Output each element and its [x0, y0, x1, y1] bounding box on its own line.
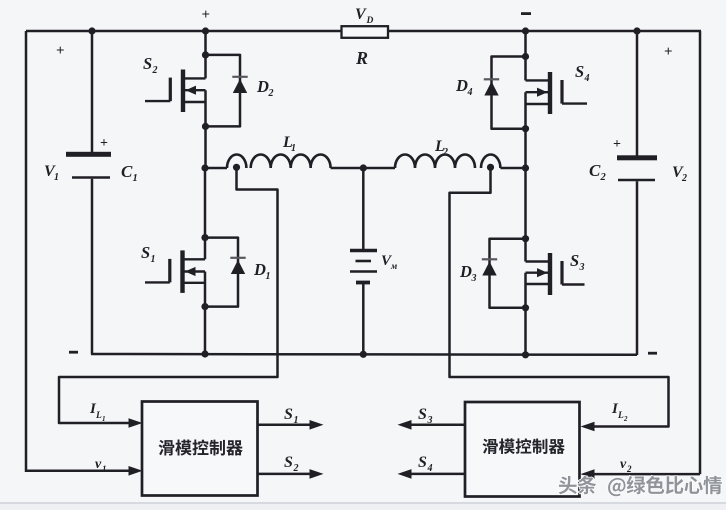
svg-text:D: D	[459, 262, 472, 281]
diode D2	[232, 76, 247, 78]
wire S2 output	[258, 473, 311, 476]
svg-text:2: 2	[681, 173, 687, 184]
wire S4 output	[411, 473, 466, 476]
svg-text:S: S	[284, 454, 293, 471]
svg-text:L: L	[95, 411, 102, 421]
arrow v1 into controller	[129, 466, 143, 476]
controller U2 box	[465, 402, 580, 497]
svg-text:S: S	[143, 54, 152, 73]
wire D4 branch	[492, 57, 526, 129]
svg-text:1: 1	[151, 254, 156, 265]
node S3 top	[522, 235, 529, 242]
svg-text:D: D	[366, 16, 374, 26]
transistor S3	[548, 253, 552, 295]
transistor S4	[548, 72, 552, 114]
wire S4 source vertical	[524, 92, 527, 168]
svg-text:2: 2	[268, 88, 274, 99]
node S4 rail	[522, 27, 529, 34]
inductor L1	[227, 155, 331, 169]
node S3S4 junction	[522, 164, 529, 171]
diode D3	[482, 258, 497, 260]
svg-text:4: 4	[427, 463, 433, 474]
svg-text:V: V	[355, 6, 367, 23]
wire S3 drain vertical	[524, 168, 527, 262]
svg-text:1: 1	[133, 173, 138, 184]
wire L2 lead right	[500, 167, 525, 170]
svg-text:2: 2	[600, 172, 607, 183]
svg-text:+: +	[100, 136, 108, 151]
svg-text:S: S	[418, 406, 427, 423]
svg-text:S: S	[284, 406, 293, 423]
wire S3 output	[411, 424, 466, 427]
wire battery bottom	[362, 284, 365, 354]
label - top rail	[521, 12, 531, 15]
node S1 bottom	[201, 303, 208, 310]
svg-text:S: S	[575, 62, 584, 81]
battery Vbat	[350, 249, 377, 252]
svg-text:1: 1	[294, 415, 299, 426]
svg-text:2: 2	[442, 147, 448, 158]
svg-text:L: L	[617, 411, 624, 421]
node S3 rail	[522, 351, 529, 358]
diode D4	[484, 78, 499, 80]
wire S1 source vertical	[204, 272, 207, 355]
wire C2 top	[636, 31, 639, 156]
node S3 bottom	[522, 304, 529, 311]
wire IL2 sense	[450, 167, 669, 426]
label - bottom left	[69, 351, 78, 354]
wire bottom rail	[91, 353, 637, 356]
wire D3 branch	[490, 239, 526, 308]
svg-text:+: +	[202, 7, 211, 23]
svg-text:v: v	[620, 457, 627, 472]
node C2 rail	[633, 27, 640, 34]
controller U2 text	[483, 439, 498, 454]
svg-text:2: 2	[293, 463, 299, 474]
wire D2 branch	[206, 55, 241, 127]
svg-text:S: S	[141, 243, 150, 262]
node S4 bottom	[522, 125, 529, 132]
svg-text:D: D	[455, 76, 468, 95]
arrow S4 output	[398, 469, 412, 479]
svg-text:1: 1	[266, 271, 271, 282]
svg-text:1: 1	[54, 172, 59, 183]
wire C2 bottom	[636, 181, 639, 355]
wire battery top	[362, 168, 365, 249]
svg-text:3: 3	[579, 262, 585, 273]
wire top rail right segment	[388, 30, 701, 33]
wire C1 bottom	[91, 179, 94, 354]
svg-text:м: м	[390, 261, 397, 271]
wire left outer vertical	[25, 31, 28, 472]
transistor S1	[180, 250, 184, 293]
arrow IL1 into controller	[129, 418, 143, 428]
wire S4 drain vertical	[524, 31, 527, 80]
wire L1 lead right	[331, 167, 364, 170]
arrow IL2 into controller	[581, 422, 595, 432]
wire IL1 sense	[59, 167, 278, 423]
node C1 rail	[88, 27, 95, 34]
node S1 top	[201, 234, 208, 241]
svg-text:2: 2	[623, 415, 628, 423]
wire S1 output	[258, 424, 311, 427]
svg-text:R: R	[355, 48, 368, 68]
arrow S1 output	[310, 420, 324, 430]
svg-text:+: +	[613, 137, 621, 152]
wire S3 source vertical	[524, 273, 527, 355]
wire v2 horizontal	[594, 473, 700, 476]
controller U1 box	[142, 402, 258, 496]
svg-text:+: +	[664, 44, 673, 60]
arrow S3 output	[398, 420, 412, 430]
wire D1 branch	[205, 238, 238, 307]
svg-text:4: 4	[467, 87, 473, 98]
node L2 tap	[487, 164, 494, 171]
wire C1 top	[91, 31, 94, 152]
wire S1 drain vertical	[204, 168, 207, 259]
svg-text:2: 2	[152, 65, 158, 76]
capacitor C2	[617, 155, 657, 160]
wire L1 lead left	[205, 167, 227, 170]
svg-text:1: 1	[102, 415, 106, 423]
svg-text:D: D	[256, 77, 269, 96]
svg-text:S: S	[418, 454, 427, 471]
svg-text:C: C	[589, 161, 601, 180]
wire v1 horizontal	[26, 470, 129, 473]
svg-text:+: +	[56, 43, 65, 59]
svg-text:D: D	[253, 260, 266, 279]
wire S2 drain vertical	[204, 31, 207, 78]
node S2 bottom	[202, 123, 209, 130]
node S1 rail	[201, 350, 208, 357]
node battery bottom	[360, 351, 367, 358]
wire S2 source vertical	[204, 90, 207, 168]
arrow S2 output	[310, 469, 324, 479]
node L1 tap	[233, 164, 240, 171]
node S4 top	[522, 53, 529, 60]
label - bottom right	[648, 352, 657, 355]
svg-text:4: 4	[584, 73, 590, 84]
diode D1	[230, 257, 245, 259]
transistor S2	[181, 70, 185, 113]
wire L2 lead left	[363, 167, 395, 170]
wire top rail left segment	[26, 30, 342, 33]
svg-text:v: v	[95, 457, 102, 472]
node S2 rail	[202, 27, 209, 34]
controller U1 text	[159, 440, 175, 456]
arrow v2 into controller	[581, 469, 595, 479]
inductor L2	[395, 155, 500, 169]
node S1S2 junction	[201, 164, 208, 171]
svg-text:C: C	[121, 162, 133, 181]
svg-text:1: 1	[291, 143, 296, 154]
svg-text:1: 1	[102, 464, 107, 474]
svg-text:2: 2	[626, 464, 632, 474]
wire right outer vertical	[699, 31, 702, 474]
node S2 top	[202, 51, 209, 58]
svg-text:3: 3	[427, 415, 433, 426]
resistor R	[342, 26, 389, 38]
capacitor C1	[66, 152, 111, 157]
svg-text:3: 3	[471, 273, 477, 284]
svg-text:S: S	[570, 251, 579, 270]
node center top	[360, 164, 367, 171]
